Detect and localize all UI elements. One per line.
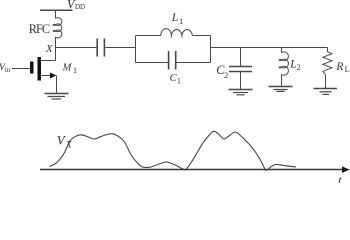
wire L2 stem bottom	[281, 75, 283, 87]
tank right vertical	[210, 36, 212, 63]
capacitor coupling plates	[96, 39, 98, 57]
svg-text:1: 1	[177, 76, 181, 85]
transistor M1 gate bar	[30, 62, 34, 74]
svg-text:L: L	[289, 58, 296, 70]
svg-text:in: in	[5, 66, 11, 74]
label L1	[171, 10, 184, 26]
label L2	[289, 58, 300, 72]
svg-text:M: M	[62, 63, 73, 74]
wire VDD bar to RFC	[55, 10, 57, 18]
svg-text:1: 1	[73, 66, 77, 75]
capacitor C1 plates	[168, 51, 170, 70]
output wire	[211, 47, 328, 49]
VDD supply bar	[40, 9, 73, 11]
label C1	[170, 73, 181, 86]
wire RFC to node X to drain corner	[55, 37, 57, 61]
label C2	[216, 63, 228, 80]
tank bottom-left wire	[136, 62, 169, 64]
label VDD	[67, 0, 85, 12]
ground C2	[229, 89, 253, 91]
label Vin	[0, 63, 11, 74]
capacitor C2 plates	[229, 66, 252, 68]
wire RL to ground	[325, 75, 327, 89]
waveform axis	[40, 169, 342, 171]
label VX	[57, 132, 72, 149]
wire source to ground	[56, 76, 58, 94]
transistor M1 source arrow	[50, 73, 56, 79]
tank bottom-right wire	[176, 62, 211, 64]
svg-text:2: 2	[224, 70, 228, 80]
axis arrowhead	[342, 166, 350, 173]
tank top-right wire	[192, 35, 210, 37]
wire cap to tank	[105, 47, 135, 49]
ground M1	[45, 93, 69, 95]
wire C2 stem top	[240, 48, 242, 67]
transistor M1 drain wire	[41, 60, 56, 62]
label M1	[62, 63, 77, 75]
wire Vin to gate	[12, 68, 30, 70]
svg-text:R: R	[335, 61, 343, 73]
svg-text:2: 2	[297, 63, 301, 72]
svg-text:RFC: RFC	[29, 22, 50, 36]
svg-text:L: L	[345, 65, 350, 74]
ground RL	[314, 88, 338, 90]
resistor RL	[323, 48, 332, 75]
node X wire to coupling cap	[56, 47, 97, 49]
svg-text:t: t	[338, 172, 342, 183]
svg-text:1: 1	[179, 16, 183, 26]
svg-text:L: L	[171, 10, 179, 24]
waveform VX curve	[50, 131, 297, 170]
svg-text:X: X	[45, 43, 54, 55]
tank top-left wire	[136, 35, 161, 37]
ground L2	[269, 86, 293, 88]
wire L2 stem top	[281, 48, 283, 53]
transistor M1 source wire	[41, 75, 51, 77]
label RL	[335, 61, 349, 74]
inductor L2	[279, 52, 288, 75]
transistor M1 channel bar	[38, 57, 42, 81]
svg-text:DD: DD	[75, 3, 85, 11]
svg-text:X: X	[65, 139, 72, 149]
tank left vertical	[135, 36, 137, 63]
inductor RFC	[53, 18, 62, 38]
inductor L1	[161, 29, 193, 38]
wire C2 stem bottom	[240, 72, 242, 90]
